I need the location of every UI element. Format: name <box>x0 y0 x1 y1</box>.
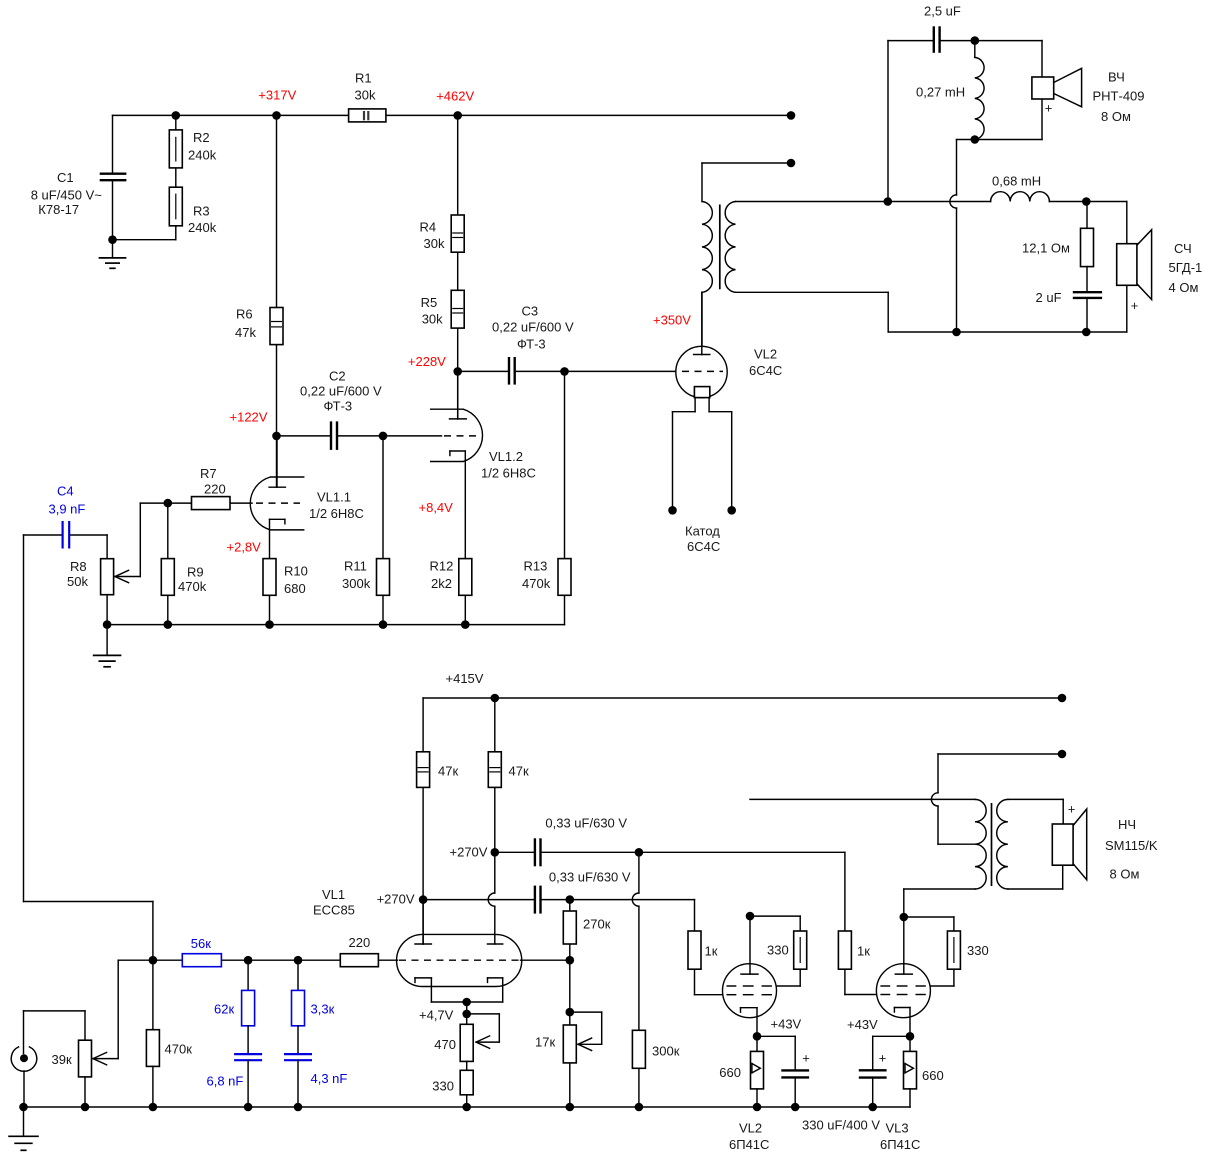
svg-text:0,33 uF/630 V: 0,33 uF/630 V <box>549 870 631 885</box>
svg-text:К78-17: К78-17 <box>38 202 79 217</box>
svg-text:3,9 nF: 3,9 nF <box>49 502 86 517</box>
svg-text:3,3к: 3,3к <box>311 1002 335 1017</box>
svg-text:НЧ: НЧ <box>1118 817 1136 832</box>
svg-text:+415V: +415V <box>446 671 484 686</box>
svg-text:Катод: Катод <box>685 524 720 539</box>
svg-text:470: 470 <box>434 1037 456 1052</box>
svg-text:330: 330 <box>767 943 789 958</box>
svg-text:470к: 470к <box>165 1042 193 1057</box>
svg-text:ECC85: ECC85 <box>313 903 355 918</box>
svg-text:6П41С: 6П41С <box>880 1137 920 1152</box>
svg-text:VL1.2: VL1.2 <box>489 449 523 464</box>
svg-text:R3: R3 <box>193 204 210 219</box>
svg-text:660: 660 <box>719 1065 741 1080</box>
svg-text:+43V: +43V <box>771 1017 802 1032</box>
svg-text:R4: R4 <box>420 220 437 235</box>
svg-text:30k: 30k <box>424 236 445 251</box>
svg-text:6С4С: 6С4С <box>687 539 720 554</box>
svg-text:2k2: 2k2 <box>431 576 452 591</box>
svg-text:+: + <box>802 1051 810 1066</box>
svg-text:VL2: VL2 <box>754 347 777 362</box>
svg-text:+43V: +43V <box>847 1017 878 1032</box>
svg-text:30k: 30k <box>355 88 376 103</box>
svg-text:12,1 Ом: 12,1 Ом <box>1022 241 1070 256</box>
svg-text:240k: 240k <box>188 148 217 163</box>
svg-text:+: + <box>1045 101 1053 116</box>
svg-text:470k: 470k <box>178 579 207 594</box>
svg-text:5ГД-1: 5ГД-1 <box>1169 260 1203 275</box>
svg-text:1к: 1к <box>705 944 718 959</box>
svg-text:220: 220 <box>204 482 226 497</box>
svg-text:6С4С: 6С4С <box>749 363 782 378</box>
svg-text:VL3: VL3 <box>886 1121 909 1136</box>
svg-text:C1: C1 <box>57 170 74 185</box>
svg-text:R1: R1 <box>355 71 372 86</box>
svg-text:R5: R5 <box>421 295 438 310</box>
svg-text:+270V: +270V <box>377 892 415 907</box>
svg-text:62к: 62к <box>214 1002 234 1017</box>
svg-text:8 Ом: 8 Ом <box>1110 867 1140 882</box>
svg-text:0,27 mH: 0,27 mH <box>916 85 965 100</box>
svg-text:17к: 17к <box>535 1035 555 1050</box>
svg-text:R9: R9 <box>187 565 204 580</box>
svg-text:8 uF/450 V~: 8 uF/450 V~ <box>31 188 103 203</box>
svg-text:+122V: +122V <box>230 410 268 425</box>
svg-text:+228V: +228V <box>408 354 446 369</box>
svg-text:+8,4V: +8,4V <box>419 500 454 515</box>
svg-text:300k: 300k <box>342 576 371 591</box>
svg-text:470k: 470k <box>522 576 551 591</box>
svg-text:220: 220 <box>349 935 371 950</box>
svg-text:R8: R8 <box>70 559 87 574</box>
svg-text:0,68 mH: 0,68 mH <box>992 174 1041 189</box>
svg-text:47к: 47к <box>509 764 529 779</box>
svg-text:R6: R6 <box>236 307 253 322</box>
svg-text:6П41С: 6П41С <box>729 1137 769 1152</box>
svg-text:8 Ом: 8 Ом <box>1101 109 1131 124</box>
svg-text:4,3 nF: 4,3 nF <box>311 1071 348 1086</box>
svg-text:C2: C2 <box>329 369 346 384</box>
svg-text:330 uF/400 V: 330 uF/400 V <box>802 1118 880 1133</box>
svg-text:+462V: +462V <box>436 89 474 104</box>
svg-text:1/2 6Н8С: 1/2 6Н8С <box>309 506 364 521</box>
svg-text:R12: R12 <box>430 559 454 574</box>
svg-text:R13: R13 <box>524 559 548 574</box>
svg-text:1к: 1к <box>857 944 870 959</box>
svg-text:330: 330 <box>967 943 989 958</box>
svg-text:VL2: VL2 <box>739 1121 762 1136</box>
svg-text:SM115/K: SM115/K <box>1105 838 1158 853</box>
svg-text:ФТ-3: ФТ-3 <box>517 337 546 352</box>
svg-text:47к: 47к <box>438 764 458 779</box>
svg-text:РНТ-409: РНТ-409 <box>1093 89 1145 104</box>
svg-text:ВЧ: ВЧ <box>1108 70 1125 85</box>
svg-text:C3: C3 <box>522 304 539 319</box>
svg-text:СЧ: СЧ <box>1174 241 1192 256</box>
svg-text:2,5 uF: 2,5 uF <box>924 4 961 19</box>
svg-text:47k: 47k <box>235 325 256 340</box>
svg-text:R7: R7 <box>200 466 217 481</box>
svg-text:R2: R2 <box>193 130 210 145</box>
svg-text:+270V: +270V <box>450 845 488 860</box>
svg-text:6,8 nF: 6,8 nF <box>207 1074 244 1089</box>
svg-text:+: + <box>1068 802 1076 817</box>
svg-text:+4,7V: +4,7V <box>419 1008 454 1023</box>
svg-text:0,22 uF/600 V: 0,22 uF/600 V <box>300 384 382 399</box>
svg-text:680: 680 <box>284 581 306 596</box>
svg-text:39к: 39к <box>52 1052 72 1067</box>
svg-text:+2,8V: +2,8V <box>227 540 262 555</box>
svg-text:2 uF: 2 uF <box>1036 290 1062 305</box>
svg-text:+317V: +317V <box>258 88 296 103</box>
svg-text:330: 330 <box>432 1079 454 1094</box>
svg-text:56к: 56к <box>191 936 211 951</box>
svg-text:R10: R10 <box>284 564 308 579</box>
svg-text:240k: 240k <box>188 220 217 235</box>
svg-text:4 Ом: 4 Ом <box>1169 280 1199 295</box>
svg-text:ФТ-3: ФТ-3 <box>324 399 353 414</box>
svg-text:VL1.1: VL1.1 <box>317 490 351 505</box>
svg-text:VL1: VL1 <box>322 887 345 902</box>
svg-text:0,33 uF/630 V: 0,33 uF/630 V <box>545 816 627 831</box>
svg-text:+: + <box>879 1051 887 1066</box>
svg-text:R11: R11 <box>344 559 367 574</box>
svg-text:+: + <box>1131 298 1139 313</box>
svg-text:660: 660 <box>922 1068 944 1083</box>
svg-text:50k: 50k <box>67 574 88 589</box>
svg-text:270к: 270к <box>583 917 611 932</box>
svg-text:0,22 uF/600 V: 0,22 uF/600 V <box>492 320 574 335</box>
svg-text:30k: 30k <box>422 312 443 327</box>
svg-text:C4: C4 <box>57 484 74 499</box>
svg-text:1/2 6Н8С: 1/2 6Н8С <box>481 466 536 481</box>
svg-text:+350V: +350V <box>653 313 691 328</box>
svg-text:300к: 300к <box>652 1044 680 1059</box>
